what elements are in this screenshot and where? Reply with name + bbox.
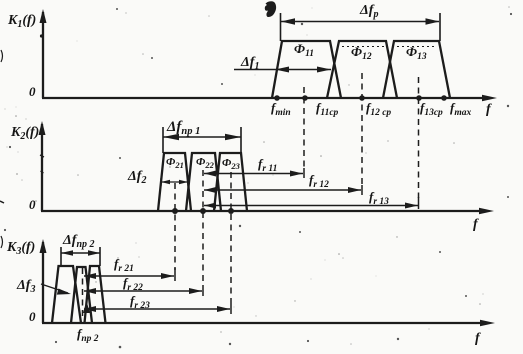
svg-text:Ф23: Ф23 — [222, 157, 241, 171]
svg-text:0: 0 — [29, 84, 36, 99]
svg-text:fmax: fmax — [450, 100, 471, 118]
svg-text:K3(f): K3(f) — [6, 240, 35, 257]
svg-text:f: f — [486, 102, 492, 117]
svg-text:fr 12: fr 12 — [309, 172, 329, 190]
svg-text:fr 21: fr 21 — [114, 256, 134, 274]
svg-text:fпр 2: fпр 2 — [77, 326, 99, 344]
svg-text:Δfпр 1: Δfпр 1 — [166, 119, 200, 137]
svg-text:0: 0 — [29, 197, 36, 212]
svg-text:f11ср: f11ср — [316, 100, 339, 118]
svg-text:Ф11: Ф11 — [294, 41, 314, 59]
svg-text:Δf3: Δf3 — [16, 278, 35, 295]
svg-text:fmin: fmin — [271, 100, 291, 118]
svg-text:fr 13: fr 13 — [369, 189, 389, 207]
svg-text:fr 11: fr 11 — [258, 156, 277, 174]
svg-text:f: f — [473, 217, 479, 232]
svg-text:0: 0 — [29, 309, 36, 324]
svg-text:Δf2: Δf2 — [127, 169, 146, 186]
svg-text:K2(f): K2(f) — [10, 125, 39, 142]
svg-text:Ф22: Ф22 — [196, 156, 215, 170]
svg-text:K1(f): K1(f) — [7, 13, 36, 30]
svg-text:Δfпр 2: Δfпр 2 — [62, 233, 95, 250]
svg-text:Δfр: Δfр — [359, 3, 378, 20]
svg-text:f13ср: f13ср — [420, 100, 443, 118]
svg-text:f12 ср: f12 ср — [366, 100, 391, 118]
svg-text:Ф21: Ф21 — [166, 156, 184, 170]
svg-text:f: f — [475, 331, 481, 346]
